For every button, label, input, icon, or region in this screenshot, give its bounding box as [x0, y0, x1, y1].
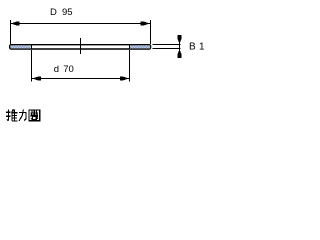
glyph 圈 inner [31, 112, 38, 114]
svg-text:B: B [189, 41, 196, 52]
centerline [80, 38, 82, 54]
washer section left (hatched ring material) [10, 45, 30, 48]
extension line d right [129, 50, 131, 81]
dimension label B 1 [189, 41, 205, 52]
arrowhead B bottom [177, 49, 181, 58]
bore edge left [31, 44, 33, 49]
arrowhead d left [32, 76, 41, 80]
svg-text:1: 1 [199, 41, 205, 52]
svg-text:d: d [54, 64, 59, 75]
dimension line d [32, 78, 129, 80]
arrowhead D left [11, 21, 20, 25]
glyph 圈 (enclosure) [29, 110, 40, 121]
dimension label D 95 [50, 7, 73, 18]
svg-text:D: D [50, 7, 57, 18]
dimension line B vertical [179, 35, 181, 58]
extension line B top [152, 44, 180, 46]
extension line D left [10, 20, 12, 44]
washer section right (hatched ring material) [130, 45, 150, 48]
glyph 力 [19, 111, 27, 113]
svg-text:70: 70 [63, 64, 74, 75]
washer section outline [10, 45, 151, 49]
arrowhead D right [141, 21, 150, 25]
glyph 推 : hand radical [6, 111, 10, 113]
glyph 推 : right part 隹 [12, 109, 14, 113]
extension line B bottom [152, 48, 180, 50]
svg-text:95: 95 [62, 7, 73, 18]
arrowhead B top [177, 35, 181, 44]
extension line d left [31, 50, 33, 81]
extension line D right [150, 20, 152, 44]
dimension label d 70 [54, 64, 74, 75]
caption 推力圈 (thrust washer), hand-drawn glyphs [6, 109, 40, 121]
arrowhead d right [120, 76, 129, 80]
bore edge right [129, 44, 131, 49]
dimension line D [11, 23, 151, 25]
